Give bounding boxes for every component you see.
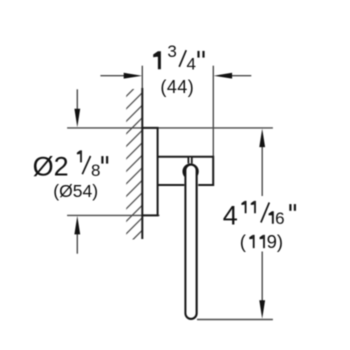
svg-text:4: 4 bbox=[223, 201, 238, 231]
svg-text:3: 3 bbox=[167, 42, 176, 61]
svg-text:9: 9 bbox=[267, 231, 277, 252]
svg-text:): ) bbox=[277, 231, 283, 252]
svg-text:8: 8 bbox=[91, 161, 100, 180]
svg-text:(44): (44) bbox=[160, 77, 194, 97]
svg-text:(: ( bbox=[240, 231, 247, 252]
svg-text:4: 4 bbox=[187, 55, 196, 74]
svg-text:6: 6 bbox=[275, 209, 284, 228]
svg-text:Ø2: Ø2 bbox=[33, 152, 69, 182]
svg-text:(Ø54): (Ø54) bbox=[53, 181, 98, 201]
